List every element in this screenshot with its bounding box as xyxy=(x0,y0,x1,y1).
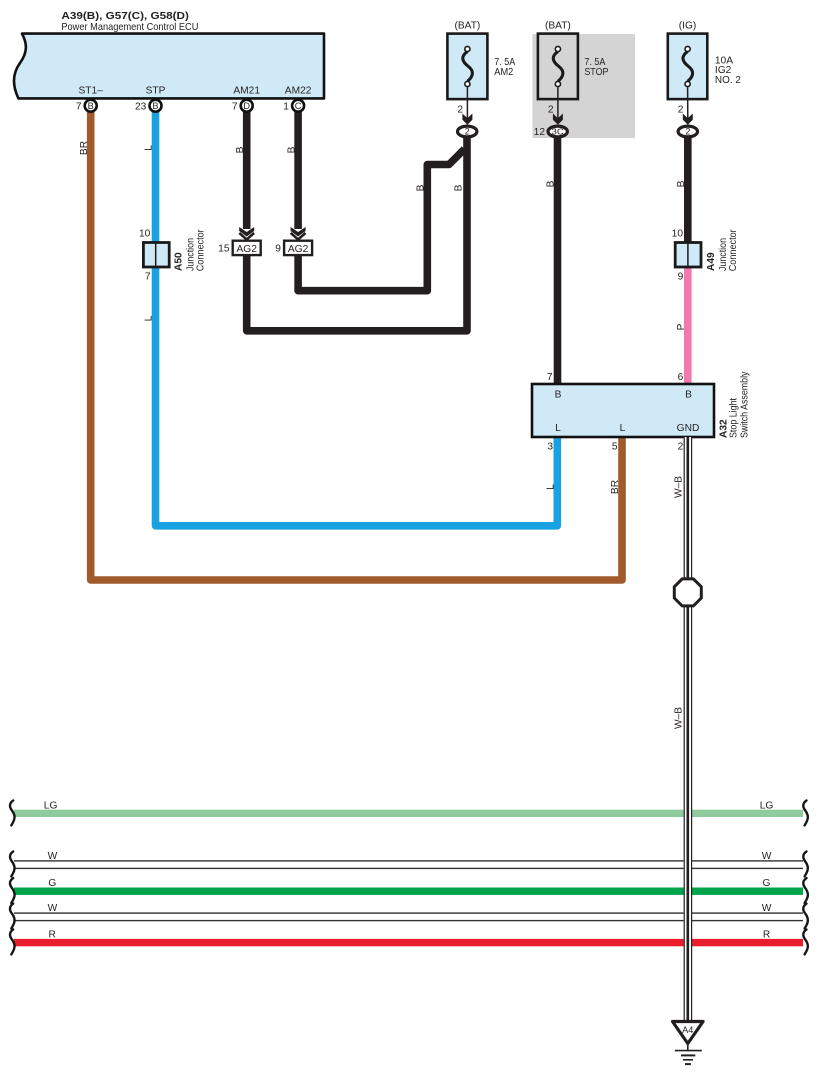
break symbol W2 right xyxy=(803,904,808,929)
bus labels right xyxy=(760,801,774,941)
svg-text:AM22: AM22 xyxy=(285,86,312,97)
svg-text:LG: LG xyxy=(760,801,774,812)
svg-text:Switch Assembly: Switch Assembly xyxy=(739,371,750,438)
svg-text:BR: BR xyxy=(79,141,90,155)
svg-text:A50: A50 xyxy=(173,252,184,271)
break symbol G left xyxy=(10,878,15,903)
svg-text:AG2: AG2 xyxy=(288,244,309,255)
ECU pin ST1- xyxy=(76,86,103,113)
wire BR: ST1- to A32 pin5 xyxy=(91,106,622,580)
svg-text:BR: BR xyxy=(610,480,621,494)
svg-text:ST1–: ST1– xyxy=(79,86,104,97)
svg-text:10: 10 xyxy=(672,229,684,240)
gray background block behind STOP fuse xyxy=(532,34,635,138)
svg-text:2: 2 xyxy=(465,127,470,137)
fuse STOP box xyxy=(538,21,609,100)
fuse AM2 pin 2 lead and arrow xyxy=(457,86,472,125)
break symbol R right xyxy=(803,930,808,955)
svg-text:GND: GND xyxy=(677,423,700,434)
svg-text:A39(B), G57(C), G58(D): A39(B), G57(C), G58(D) xyxy=(61,11,188,22)
svg-text:R: R xyxy=(49,930,56,941)
break symbol W1 right xyxy=(803,852,808,877)
fuse AM2 box xyxy=(447,21,515,100)
svg-text:(IG): (IG) xyxy=(679,21,697,32)
node oval 3C xyxy=(534,126,568,138)
svg-text:12: 12 xyxy=(534,127,546,138)
svg-text:1: 1 xyxy=(283,102,289,113)
break symbol G right xyxy=(803,878,808,903)
svg-text:L: L xyxy=(555,423,561,434)
chevron arrow into AG2 15 xyxy=(239,227,254,240)
wire W-B: A32 GND down to ground A4 xyxy=(684,437,693,1020)
splice octagon on W-B xyxy=(674,579,701,606)
bus labels left xyxy=(44,801,58,941)
connector AG2 (9) xyxy=(275,241,312,255)
svg-text:6: 6 xyxy=(678,372,684,383)
svg-text:LG: LG xyxy=(44,801,58,812)
connector AG2 (15) xyxy=(218,241,261,255)
svg-text:Connector: Connector xyxy=(728,229,739,272)
svg-text:W–B: W–B xyxy=(674,707,685,729)
svg-text:AM21: AM21 xyxy=(233,86,260,97)
break symbol R left xyxy=(10,930,15,955)
fuse STOP pin 2 lead and arrow xyxy=(548,86,563,125)
svg-text:7: 7 xyxy=(232,102,238,113)
ECU A39 box xyxy=(14,34,324,99)
svg-text:9: 9 xyxy=(678,272,684,283)
wire B: fuse STOP node 3C down to A32 pin7 xyxy=(554,137,562,384)
svg-text:L: L xyxy=(144,145,155,151)
svg-text:B: B xyxy=(152,101,158,111)
svg-text:A4: A4 xyxy=(682,1025,693,1035)
bus wire LG xyxy=(14,810,803,817)
svg-text:10: 10 xyxy=(139,229,151,240)
svg-text:B: B xyxy=(286,146,297,153)
svg-text:B: B xyxy=(685,390,692,401)
svg-text:B: B xyxy=(416,184,427,191)
wire L: STP to A32 pin3 xyxy=(156,106,558,526)
svg-text:B: B xyxy=(235,146,246,153)
svg-text:3: 3 xyxy=(547,442,553,453)
svg-text:W: W xyxy=(762,851,772,862)
junction connector A49 xyxy=(672,229,739,283)
svg-text:D: D xyxy=(243,101,250,111)
bus wire G xyxy=(14,888,803,895)
node oval 2 (AM2) xyxy=(458,126,477,137)
svg-text:15: 15 xyxy=(218,244,230,255)
ECU pin AM21 xyxy=(232,86,261,113)
svg-text:2: 2 xyxy=(685,127,690,137)
svg-text:B: B xyxy=(546,180,557,187)
svg-text:STP: STP xyxy=(146,86,166,97)
junction connector A50 xyxy=(139,229,207,283)
svg-text:P: P xyxy=(676,323,687,330)
bus wire W lower xyxy=(14,912,803,921)
svg-text:L: L xyxy=(620,423,626,434)
bus wire R xyxy=(14,939,803,946)
svg-text:W: W xyxy=(48,903,58,914)
svg-text:(BAT): (BAT) xyxy=(545,21,571,32)
svg-text:G: G xyxy=(763,878,771,889)
svg-text:L: L xyxy=(546,484,557,490)
ground A4 triangle xyxy=(673,1022,704,1065)
svg-text:5: 5 xyxy=(612,442,618,453)
wire B: AM21 down to AG2 xyxy=(243,106,251,229)
svg-text:AG2: AG2 xyxy=(237,244,258,255)
wire B: AM22 down to AG2 xyxy=(294,106,302,229)
svg-text:7: 7 xyxy=(76,102,82,113)
svg-text:7: 7 xyxy=(145,272,151,283)
wire B: fuse IG2 node down to A49 xyxy=(684,137,692,242)
svg-text:STOP: STOP xyxy=(584,67,608,78)
bus wire W upper xyxy=(14,860,803,869)
svg-text:R: R xyxy=(763,930,770,941)
svg-text:B: B xyxy=(555,390,562,401)
svg-text:B: B xyxy=(454,184,465,191)
svg-text:Connector: Connector xyxy=(196,229,207,272)
svg-text:7: 7 xyxy=(547,372,553,383)
svg-text:NO. 2: NO. 2 xyxy=(715,75,741,86)
svg-text:W–B: W–B xyxy=(674,476,685,498)
svg-text:3C: 3C xyxy=(551,126,564,136)
switch A32 box xyxy=(532,371,750,453)
svg-text:G: G xyxy=(48,878,56,889)
svg-text:W: W xyxy=(48,851,58,862)
svg-text:(BAT): (BAT) xyxy=(454,21,480,32)
wire B: below AG2 9 up to node 2 via jog xyxy=(298,149,464,291)
svg-text:B: B xyxy=(676,180,687,187)
svg-text:23: 23 xyxy=(135,102,147,113)
svg-text:L: L xyxy=(144,315,155,321)
break symbol W2 left xyxy=(10,904,15,929)
ECU pin AM22 xyxy=(283,86,312,113)
wire B: below AG2 15 to node 2 vertical xyxy=(247,137,467,331)
chevron arrow into AG2 9 xyxy=(291,227,306,240)
svg-text:Stop Light: Stop Light xyxy=(729,398,740,438)
fuse IG2 box xyxy=(668,21,741,100)
break symbol LG right xyxy=(803,801,808,826)
svg-text:9: 9 xyxy=(275,244,281,255)
svg-text:2: 2 xyxy=(678,442,684,453)
node oval 2 (IG2) xyxy=(678,126,697,137)
svg-text:A49: A49 xyxy=(706,252,717,271)
break symbol LG left xyxy=(10,801,15,826)
fuse IG2 pin 2 lead and arrow xyxy=(678,86,693,125)
break symbol W1 left xyxy=(10,852,15,877)
svg-text:B: B xyxy=(88,101,94,111)
wire P: A49 down to A32 pin6 xyxy=(684,267,692,384)
ECU pin STP xyxy=(135,86,166,113)
svg-text:W: W xyxy=(762,903,772,914)
svg-text:AM2: AM2 xyxy=(494,67,513,78)
svg-text:Power Management Control ECU: Power Management Control ECU xyxy=(61,22,198,33)
svg-text:C: C xyxy=(295,101,302,111)
